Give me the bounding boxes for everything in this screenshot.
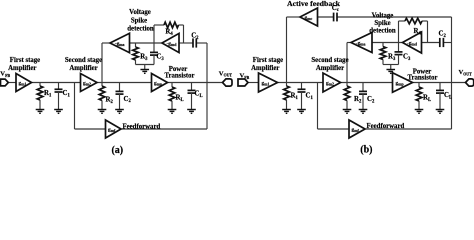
- svg-text:(b): (b): [360, 144, 372, 155]
- svg-text:Transistor: Transistor: [164, 73, 194, 80]
- svg-text:Transistor: Transistor: [407, 75, 437, 82]
- svg-text:Feedforward: Feedforward: [123, 123, 161, 130]
- svg-text:Spike: Spike: [374, 20, 390, 27]
- svg-text:First stage: First stage: [10, 57, 40, 64]
- svg-text:detection: detection: [369, 27, 396, 34]
- svg-text:Amplifier: Amplifier: [251, 65, 279, 72]
- svg-text:Spike: Spike: [131, 17, 147, 24]
- svg-text:Second stage: Second stage: [65, 57, 102, 64]
- svg-text:Voltage: Voltage: [129, 9, 151, 16]
- svg-text:First stage: First stage: [253, 57, 283, 64]
- svg-text:Amplifier: Amplifier: [8, 65, 36, 72]
- svg-text:Voltage: Voltage: [372, 12, 394, 19]
- svg-text:Feedforward: Feedforward: [367, 123, 405, 130]
- svg-text:Amplifier: Amplifier: [316, 65, 344, 72]
- svg-text:detection: detection: [127, 26, 154, 33]
- svg-text:Second stage: Second stage: [311, 57, 348, 64]
- svg-text:(a): (a): [111, 145, 123, 156]
- svg-text:Amplifier: Amplifier: [69, 65, 97, 72]
